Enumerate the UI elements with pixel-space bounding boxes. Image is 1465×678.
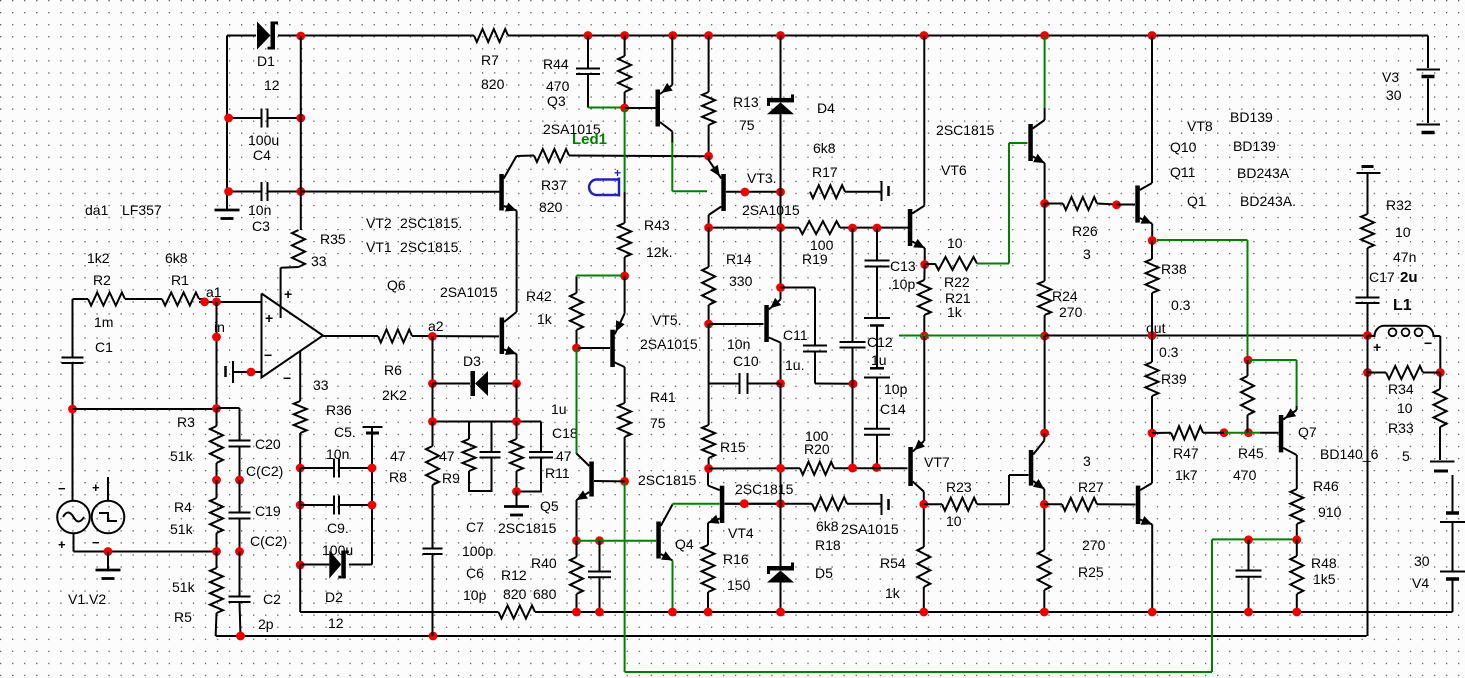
label R33: [1388, 420, 1414, 464]
transistor VT4: [708, 486, 724, 524]
svg-text:C5.: C5.: [334, 424, 356, 440]
capacitor parallel R44: [576, 36, 625, 108]
svg-text:75: 75: [739, 117, 755, 133]
capacitor C7: [480, 422, 501, 458]
diode D3: [433, 371, 517, 396]
svg-text:.10p: .10p: [888, 276, 915, 292]
svg-text:C18: C18: [552, 425, 578, 441]
source polarity marks: [58, 480, 100, 552]
label R25: [1078, 537, 1106, 580]
svg-text:C(C2): C(C2): [246, 463, 283, 479]
svg-text:Q10: Q10: [1170, 139, 1197, 155]
wire a2 to D3: [432, 336, 434, 383]
wire right feedback column: [371, 428, 373, 565]
svg-text:C(C2): C(C2): [250, 533, 287, 549]
svg-text:1u.: 1u.: [785, 357, 804, 373]
label R40: [531, 555, 557, 602]
resistor R54: [917, 547, 930, 612]
capacitor C3: [229, 182, 301, 201]
svg-text:VT5.: VT5.: [652, 312, 682, 328]
svg-text:12: 12: [264, 77, 280, 93]
label Q6: [387, 277, 498, 300]
label R15: [720, 439, 746, 455]
label R38: [1161, 261, 1191, 313]
node bus1 dots: [572, 608, 1301, 617]
svg-text:D2: D2: [325, 589, 343, 605]
node R3 top: [212, 404, 221, 413]
label C9: [322, 520, 353, 558]
svg-text:R16: R16: [723, 551, 749, 567]
svg-text:R45: R45: [1238, 445, 1264, 461]
label R39: [1159, 344, 1187, 387]
label R2 R1: [87, 250, 189, 288]
label L1 polarity: [1373, 335, 1432, 355]
wire Q11 emitter: [1151, 524, 1153, 612]
label Q7: [1298, 424, 1317, 440]
label R8: [389, 448, 407, 485]
label C20: [246, 436, 283, 479]
node VT3 base dots: [741, 188, 785, 197]
node out right: [1363, 331, 1372, 340]
transistor Q3: [656, 83, 673, 132]
svg-text:R44: R44: [543, 56, 569, 72]
wire V4 stub: [1452, 475, 1454, 512]
label V4: [1412, 553, 1430, 591]
svg-text:R36: R36: [326, 402, 352, 418]
wire D3 columns down: [433, 384, 517, 422]
svg-text:2SC1815: 2SC1815: [936, 122, 995, 138]
svg-text:−: −: [283, 370, 291, 386]
svg-text:C10: C10: [733, 353, 759, 369]
source V2: [92, 501, 125, 534]
svg-text:in: in: [214, 319, 225, 335]
wire R24 down: [1044, 336, 1046, 433]
label D3: [463, 353, 481, 369]
resistor R8: [426, 422, 439, 549]
svg-text:BD243A: BD243A: [1237, 165, 1290, 181]
ground below sources: [96, 552, 121, 579]
node D3 right: [512, 379, 521, 388]
svg-text:L1: L1: [1393, 297, 1412, 314]
node R45 top: [1244, 356, 1253, 365]
svg-text:D1: D1: [257, 53, 275, 69]
svg-text:820: 820: [503, 586, 527, 602]
labels output transistors: [1170, 109, 1296, 209]
node Q1 emitter: [1148, 236, 1157, 245]
node R43 bottom: [620, 272, 629, 281]
capacitor C19: [229, 480, 251, 552]
resistor R48: [1290, 539, 1303, 612]
label R34: [1388, 381, 1414, 416]
node out left: [920, 332, 929, 341]
label R23: [946, 479, 972, 529]
svg-text:C14: C14: [880, 401, 906, 417]
svg-text:10p: 10p: [463, 587, 487, 603]
svg-text:R19: R19: [802, 251, 828, 267]
label R7: [481, 52, 505, 92]
source V1: [57, 501, 90, 534]
resistor R2: [88, 293, 125, 306]
svg-text:270: 270: [1082, 537, 1106, 553]
svg-text:Q1: Q1: [1187, 193, 1206, 209]
wire Q6 emitter: [516, 354, 518, 384]
svg-text:1u: 1u: [551, 401, 567, 417]
node bias bottom: [776, 379, 785, 388]
wire emitter to R22: [924, 248, 926, 265]
svg-text:10: 10: [1397, 400, 1413, 416]
svg-text:R22: R22: [944, 274, 970, 290]
node R34 left: [1363, 368, 1445, 377]
svg-text:R47: R47: [1173, 445, 1199, 461]
svg-text:C13: C13: [890, 258, 916, 274]
wire Q11 collector: [1151, 433, 1153, 483]
svg-text:V4: V4: [1412, 575, 1429, 591]
label 2SC1815 above Q4: [638, 472, 697, 488]
capacitor C2: [229, 552, 251, 637]
resistor R15: [702, 425, 715, 469]
svg-text:820: 820: [481, 76, 505, 92]
resistor R40: [570, 541, 583, 612]
label C3: [248, 202, 271, 234]
svg-text:R37: R37: [541, 177, 567, 193]
svg-text:5: 5: [1402, 448, 1410, 464]
wire green VT6 collector: [1044, 36, 1046, 121]
capacitor C6: [423, 549, 443, 555]
svg-text:−: −: [264, 347, 272, 363]
label R20: [804, 428, 830, 457]
wire Q7 collector: [1296, 455, 1298, 489]
resistor R33: [1434, 373, 1447, 461]
svg-text:BD139: BD139: [1230, 109, 1273, 125]
wire green R43 to R42: [577, 276, 623, 279]
resistor R11: [510, 422, 523, 492]
svg-text:C19: C19: [255, 503, 281, 519]
svg-text:+: +: [92, 480, 100, 495]
transistor VT5: [610, 313, 624, 367]
svg-text:C12: C12: [867, 334, 893, 350]
svg-text:R42: R42: [526, 288, 552, 304]
svg-text:470: 470: [1233, 467, 1257, 483]
capacitor C1: [62, 358, 84, 364]
wire Q5 emitter: [576, 500, 578, 541]
node mid row dots: [704, 223, 881, 232]
wire C17 col down: [1367, 373, 1369, 637]
label R47: [1173, 445, 1199, 483]
svg-text:2SA1015: 2SA1015: [640, 336, 698, 352]
svg-text:BD243A.: BD243A.: [1240, 193, 1296, 209]
label Led1: [572, 131, 607, 148]
wire top bus left segment: [227, 35, 256, 37]
wire D5 to bus1: [780, 583, 782, 613]
wire VT6 emitter: [1044, 163, 1046, 204]
svg-text:Q11: Q11: [1170, 164, 1196, 180]
wire L1 right: [1439, 336, 1441, 373]
wire Q3 emitter up: [671, 36, 673, 86]
svg-text:47n: 47n: [1393, 249, 1416, 265]
label C14: [880, 381, 908, 417]
wire top supply bus: [278, 35, 1428, 37]
op-amp input marks: [264, 310, 273, 363]
label R35: [311, 231, 346, 269]
capacitor C13: [865, 228, 890, 318]
label R5: [172, 579, 196, 625]
label C12: [867, 334, 893, 368]
label C11: [783, 327, 808, 373]
label out: [1146, 320, 1166, 336]
wire VT5 to R41: [624, 367, 626, 403]
label VT3 2SA1015: [742, 202, 800, 218]
wire bias emitter down: [780, 343, 782, 384]
resistor R25: [1038, 550, 1051, 612]
svg-text:+: +: [1373, 339, 1381, 355]
node a1: [200, 284, 222, 306]
label R24: [1052, 288, 1083, 320]
svg-text:R35: R35: [320, 231, 346, 247]
label R45: [1233, 445, 1264, 483]
node bus2 dots: [236, 632, 437, 641]
resistor R6: [378, 330, 412, 343]
wire VT4 collector stub: [707, 469, 709, 486]
label R12 820: [501, 567, 527, 602]
svg-text:C20: C20: [255, 436, 281, 452]
resistor R23: [924, 498, 977, 511]
resistor R12 on bus1: [499, 606, 536, 619]
svg-text:VT6: VT6: [941, 162, 967, 178]
wire bus2: [216, 635, 1367, 637]
resistor R21: [918, 265, 931, 337]
wire C1 to V1: [72, 363, 74, 501]
node ladder mid1: [212, 476, 244, 485]
svg-text:75: 75: [650, 415, 666, 431]
node D3 left: [428, 379, 437, 388]
capacitor C5: [300, 459, 372, 478]
svg-text:Led1: Led1: [572, 131, 607, 148]
wire green out: [899, 335, 1045, 337]
label R48: [1311, 555, 1337, 587]
wire R20 row: [709, 467, 800, 469]
wire C20 jog: [217, 408, 240, 441]
svg-text:6k8: 6k8: [165, 250, 188, 266]
node x853 bottom: [848, 464, 857, 473]
capacitor C4: [229, 109, 301, 128]
inductor L1: [1368, 326, 1441, 336]
svg-text:30: 30: [1414, 553, 1430, 569]
svg-text:10n: 10n: [326, 446, 349, 462]
wire VT5 top: [624, 276, 626, 313]
svg-text:150: 150: [727, 577, 751, 593]
capacitor C18: [517, 422, 553, 492]
capacitor chain x853: [840, 228, 866, 468]
resistor R41: [618, 403, 631, 481]
wire R20 right: [834, 467, 908, 469]
svg-text:2SC1815.: 2SC1815.: [400, 215, 462, 231]
svg-text:1k7: 1k7: [1175, 467, 1198, 483]
svg-text:10: 10: [1395, 224, 1411, 240]
label R22: [944, 235, 970, 290]
label VT3: [747, 170, 777, 186]
capacitor at inverting input: [226, 361, 262, 383]
label R36: [313, 377, 352, 418]
wire green main column: [576, 348, 578, 454]
label R4: [170, 499, 194, 537]
svg-text:0.3: 0.3: [1171, 297, 1191, 313]
svg-text:BD139: BD139: [1233, 138, 1276, 154]
capacitor C10: [709, 373, 781, 394]
wire Q3 base: [625, 107, 656, 109]
wire bus1: [300, 611, 1452, 613]
resistor R7: [474, 29, 508, 42]
resistor R36 with lead: [294, 351, 307, 468]
wire Q1 base: [1117, 204, 1136, 206]
label C10: [727, 336, 759, 369]
label VT6: [936, 122, 995, 178]
resistor R32: [1361, 214, 1374, 298]
svg-text:1k: 1k: [885, 585, 901, 601]
capacitor C9: [300, 496, 372, 515]
wire R15 column: [708, 324, 710, 425]
capacitor C12 polarized: [864, 318, 890, 429]
svg-text:R40: R40: [531, 555, 557, 571]
svg-text:3: 3: [1083, 246, 1091, 262]
label R32: [1386, 197, 1412, 240]
capacitor C14: [864, 429, 890, 468]
label R11: [545, 448, 572, 481]
transistor T1030: [1029, 441, 1045, 490]
wire Q1 collector: [1151, 36, 1153, 184]
transistor VT3: [709, 160, 726, 215]
capacitor end R17: [882, 181, 889, 201]
svg-text:1k: 1k: [537, 311, 553, 327]
label R42: [526, 288, 553, 327]
svg-text:R14: R14: [726, 251, 752, 267]
diode D5 zener: [767, 563, 794, 583]
resistor R14: [702, 228, 715, 324]
svg-text:R12: R12: [501, 567, 527, 583]
svg-text:10: 10: [946, 513, 962, 529]
svg-text:R2: R2: [93, 272, 111, 288]
svg-text:−: −: [58, 481, 66, 496]
wire right supply column: [300, 36, 302, 192]
label C19: [250, 503, 287, 549]
resistor R19: [799, 221, 840, 234]
svg-text:V3: V3: [1382, 69, 1399, 85]
resistor R47: [1171, 426, 1203, 439]
node C14 bottom: [872, 463, 881, 472]
transistor buffer910: [908, 206, 925, 249]
resistor R1: [162, 293, 199, 306]
svg-text:51k: 51k: [172, 579, 196, 595]
svg-text:LF357: LF357: [122, 202, 162, 218]
svg-text:C7: C7: [466, 519, 484, 535]
resistor R34: [1368, 366, 1441, 379]
label 47n C17 2u: [1369, 249, 1418, 286]
svg-text:330: 330: [729, 273, 753, 289]
wire D4 bottom: [780, 114, 782, 227]
svg-text:R11: R11: [545, 465, 570, 481]
resistor R5: [210, 552, 223, 637]
svg-text:Q3: Q3: [547, 93, 566, 109]
svg-text:C2: C2: [263, 591, 281, 607]
wire C1 column: [72, 299, 74, 358]
svg-text:a1: a1: [206, 284, 222, 300]
resistor R45: [1241, 360, 1254, 433]
wire D2 col to bus1: [299, 565, 301, 612]
svg-text:Q4: Q4: [675, 536, 694, 552]
svg-text:2SC1815: 2SC1815: [638, 472, 697, 488]
svg-text:C17: C17: [1369, 269, 1395, 285]
svg-text:47: 47: [390, 448, 406, 464]
wire T1030 collector: [1043, 433, 1045, 441]
transistor Q1: [1135, 183, 1152, 224]
svg-text:2u: 2u: [1400, 269, 1418, 286]
label D5: [815, 565, 833, 581]
svg-text:R34: R34: [1388, 381, 1414, 397]
wire VT4 base right: [725, 503, 781, 505]
node D2 left: [296, 561, 305, 570]
node R14 bottom: [704, 320, 713, 329]
label Q4: [675, 536, 694, 552]
wire green Q3 collector: [672, 132, 707, 192]
svg-text:R6: R6: [384, 362, 402, 378]
wire R6 to Q6: [412, 335, 499, 337]
wire bias base: [709, 323, 764, 325]
label VT1 VT2: [366, 215, 462, 255]
svg-text:V1.V2: V1.V2: [68, 591, 106, 607]
label VT5: [640, 312, 698, 352]
resistor R35 with lead: [281, 192, 305, 319]
svg-text:100p: 100p: [462, 543, 493, 559]
svg-text:BD140_6: BD140_6: [1320, 446, 1379, 462]
node inverting input: [247, 368, 256, 377]
battery V3: [1417, 70, 1441, 133]
svg-text:470: 470: [546, 78, 570, 94]
capacitor below Q5: [588, 541, 611, 612]
svg-text:VT1: VT1: [366, 239, 392, 255]
wire mid row: [709, 227, 908, 229]
svg-text:47: 47: [556, 448, 572, 464]
node R22 left: [920, 260, 929, 269]
resistor R27: [1044, 498, 1135, 511]
svg-text:1k5: 1k5: [1313, 571, 1336, 587]
node C11 bottom: [849, 379, 858, 388]
node green low row: [1244, 535, 1301, 544]
label D4: [817, 100, 835, 116]
svg-text:R3: R3: [177, 414, 195, 430]
svg-text:R7: R7: [481, 52, 499, 68]
svg-text:+: +: [284, 286, 292, 302]
svg-text:a2: a2: [428, 318, 444, 334]
wire green LED column: [624, 108, 626, 192]
wire Q1 emitter: [1151, 224, 1153, 241]
wire Q7 emitter stub: [1296, 406, 1298, 410]
wire D5 column: [780, 384, 782, 567]
svg-text:2K2: 2K2: [382, 387, 407, 403]
wire R47 left: [1152, 432, 1171, 434]
svg-text:R39: R39: [1161, 371, 1187, 387]
capacitor lower right: [1236, 540, 1262, 612]
wire C17 to out: [1367, 303, 1369, 336]
svg-text:2SA1015: 2SA1015: [841, 521, 899, 537]
svg-text:R54: R54: [880, 555, 906, 571]
label R26: [1072, 223, 1098, 262]
svg-text:C11: C11: [783, 327, 808, 343]
label R3: [170, 414, 195, 464]
node R20 dots: [776, 464, 857, 473]
label D2: [325, 589, 344, 631]
svg-text:10p: 10p: [884, 381, 908, 397]
transistor Q7: [1279, 408, 1297, 455]
label C13: [888, 258, 916, 292]
